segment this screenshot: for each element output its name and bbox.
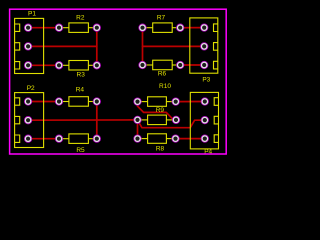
wire R9 left to R8 left (137, 120, 139, 139)
resistor R4 (55, 97, 100, 107)
wire R2 right to R3 right (96, 28, 98, 66)
resistor R6 (139, 60, 184, 69)
resistor R9 (134, 115, 180, 125)
svg-text:R3: R3 (77, 72, 86, 79)
resistor R8 (134, 134, 180, 144)
svg-text:R5: R5 (76, 147, 85, 154)
wire R4 right to R5 right (96, 102, 98, 139)
svg-text:P2: P2 (27, 85, 35, 92)
connector P2 (15, 93, 44, 148)
connector P3 (190, 18, 218, 73)
resistor R10 (134, 97, 180, 107)
svg-text:R4: R4 (76, 87, 85, 94)
svg-text:P1: P1 (28, 11, 36, 18)
svg-text:P3: P3 (202, 77, 210, 84)
svg-text:R7: R7 (157, 15, 166, 22)
wire R7 left to R6 left (142, 28, 144, 65)
wire P1 pin2 to R2-R3 junction (28, 45, 97, 47)
svg-text:R10: R10 (159, 83, 171, 90)
resistor R2 (55, 23, 100, 33)
resistor R7 (139, 23, 184, 33)
wire R10 left to R9 right (138, 102, 177, 120)
wire R8 right to P4 pin3 (176, 138, 205, 140)
wire P2 pin3 to R5 left (28, 138, 59, 140)
svg-text:R8: R8 (156, 146, 165, 153)
wire P1 pin3 to R3 left (28, 64, 59, 66)
wire R7-R6 junction to P3 pin2 (143, 45, 205, 47)
resistor R3 (55, 61, 100, 71)
wire R6 right to P3 pin3 (180, 64, 204, 66)
connector P4 (190, 92, 218, 148)
wire P1 pin1 to R2 left (28, 27, 59, 29)
wire P2 pin1 to R4 left (28, 101, 59, 103)
wire R10 right to P4 pin1 (176, 101, 205, 103)
wire P2 pin2 to R9 left (28, 119, 137, 121)
connector P1 (15, 18, 44, 73)
wire R9 left to P4 pin2 (138, 120, 205, 128)
resistor R5 (55, 134, 100, 144)
wire R7 right to P3 pin1 (180, 27, 204, 29)
svg-text:R9: R9 (156, 107, 165, 114)
svg-text:R6: R6 (158, 71, 167, 78)
svg-text:R2: R2 (76, 15, 85, 22)
